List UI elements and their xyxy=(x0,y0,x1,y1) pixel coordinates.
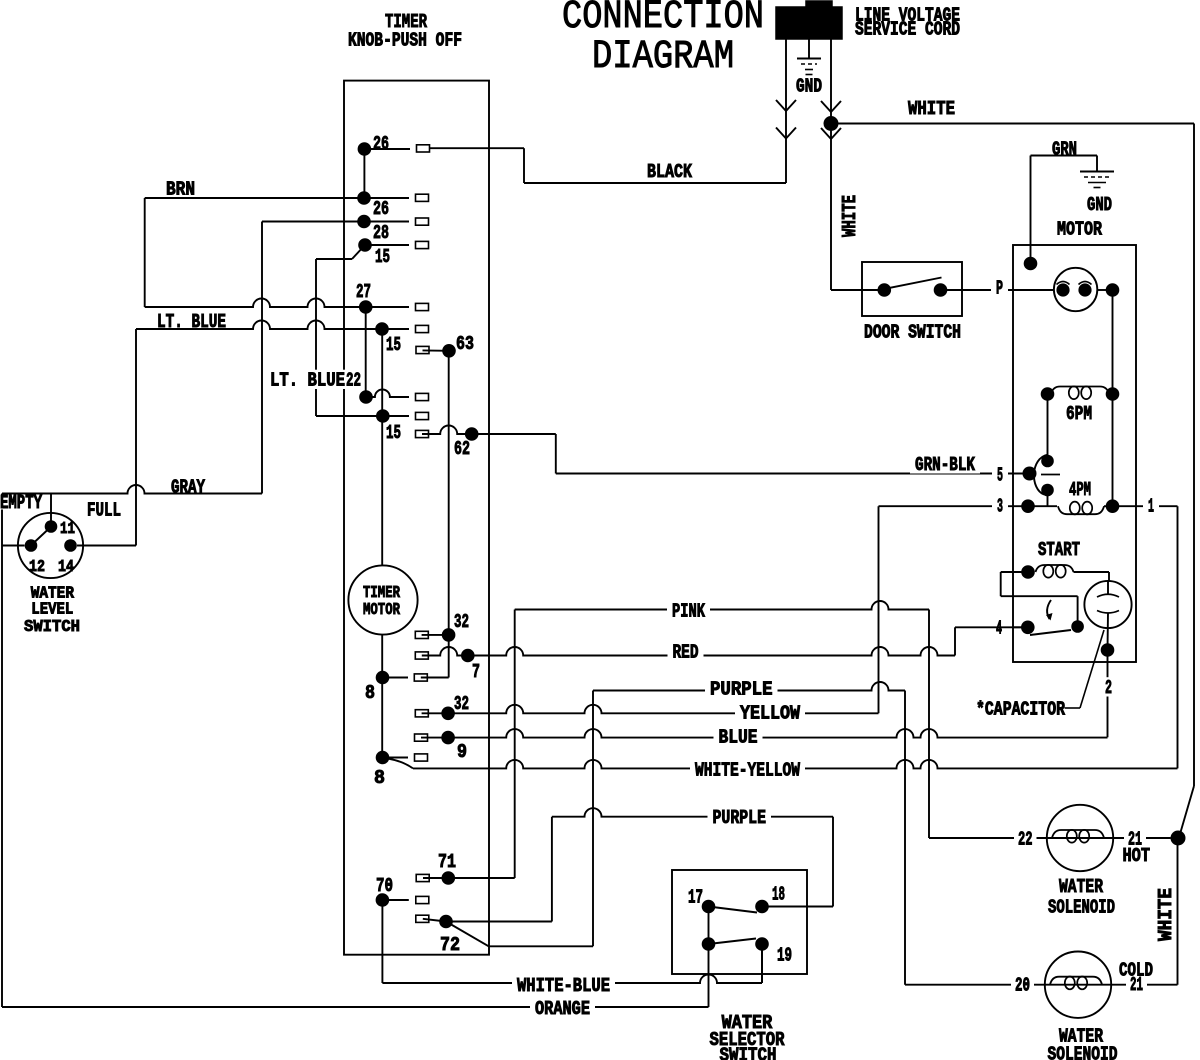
svg-text:LT. BLUE: LT. BLUE xyxy=(157,311,226,333)
svg-text:14: 14 xyxy=(58,558,74,577)
svg-text:WHITE-YELLOW: WHITE-YELLOW xyxy=(695,760,800,782)
svg-text:SOLENOID: SOLENOID xyxy=(1048,1044,1118,1060)
svg-text:BRN: BRN xyxy=(166,179,195,201)
svg-text:15: 15 xyxy=(386,422,401,444)
svg-text:9: 9 xyxy=(457,741,467,763)
svg-text:BLUE: BLUE xyxy=(719,727,758,749)
svg-text:2: 2 xyxy=(1105,677,1112,699)
svg-text:GND: GND xyxy=(1087,194,1112,216)
svg-text:18: 18 xyxy=(772,884,785,906)
svg-text:71: 71 xyxy=(438,851,456,873)
svg-text:LEVEL: LEVEL xyxy=(31,600,73,619)
svg-text:GRAY: GRAY xyxy=(171,477,205,499)
svg-text:PURPLE: PURPLE xyxy=(710,679,773,701)
svg-text:GND: GND xyxy=(796,76,822,98)
svg-text:72: 72 xyxy=(440,934,460,956)
svg-text:START: START xyxy=(1038,539,1080,561)
svg-text:PURPLE: PURPLE xyxy=(713,807,767,829)
svg-text:19: 19 xyxy=(777,945,792,967)
svg-text:DOOR SWITCH: DOOR SWITCH xyxy=(864,322,961,344)
svg-text:GRN-BLK: GRN-BLK xyxy=(915,454,975,476)
svg-text:4: 4 xyxy=(996,618,1002,640)
svg-text:WHITE-BLUE: WHITE-BLUE xyxy=(517,975,610,997)
svg-text:12: 12 xyxy=(29,558,45,577)
svg-text:YELLOW: YELLOW xyxy=(740,703,801,725)
svg-text:22: 22 xyxy=(346,370,361,392)
svg-text:63: 63 xyxy=(456,333,474,355)
svg-text:SWITCH: SWITCH xyxy=(720,1045,777,1060)
svg-text:7: 7 xyxy=(472,661,480,683)
svg-text:GRN: GRN xyxy=(1052,139,1077,161)
svg-text:28: 28 xyxy=(373,222,389,244)
svg-text:BLACK: BLACK xyxy=(647,161,692,183)
svg-text:20: 20 xyxy=(1015,975,1030,997)
svg-text:RED: RED xyxy=(673,642,699,664)
svg-text:DIAGRAM: DIAGRAM xyxy=(592,35,734,80)
svg-text:LT. BLUE: LT. BLUE xyxy=(270,370,345,392)
svg-text:SERVICE CORD: SERVICE CORD xyxy=(855,19,960,41)
svg-text:26: 26 xyxy=(373,133,389,155)
svg-text:MOTOR: MOTOR xyxy=(1057,219,1102,241)
svg-text:22: 22 xyxy=(1018,829,1033,851)
svg-text:15: 15 xyxy=(386,334,401,356)
svg-text:WHITE: WHITE xyxy=(1155,888,1177,941)
svg-text:5: 5 xyxy=(997,465,1003,487)
svg-text:62: 62 xyxy=(454,438,470,460)
svg-text:COLD: COLD xyxy=(1119,960,1153,982)
svg-text:P: P xyxy=(996,278,1003,300)
svg-text:8: 8 xyxy=(365,682,375,704)
svg-text:ORANGE: ORANGE xyxy=(535,998,590,1020)
svg-text:HOT: HOT xyxy=(1123,845,1151,867)
svg-text:11: 11 xyxy=(60,520,75,539)
svg-text:PINK: PINK xyxy=(672,601,705,623)
svg-text:WATER: WATER xyxy=(1059,876,1103,898)
svg-text:MOTOR: MOTOR xyxy=(363,601,401,620)
svg-text:4PM: 4PM xyxy=(1069,479,1091,501)
svg-text:WHITE: WHITE xyxy=(908,98,955,120)
svg-text:SOLENOID: SOLENOID xyxy=(1048,897,1115,919)
svg-text:8: 8 xyxy=(374,767,385,789)
svg-text:32: 32 xyxy=(454,611,469,633)
svg-text:KNOB-PUSH OFF: KNOB-PUSH OFF xyxy=(348,30,462,52)
svg-text:FULL: FULL xyxy=(87,500,121,522)
svg-text:17: 17 xyxy=(688,887,703,909)
svg-text:EMPTY: EMPTY xyxy=(0,492,42,514)
svg-text:WHITE: WHITE xyxy=(839,195,861,237)
svg-text:27: 27 xyxy=(356,281,371,303)
svg-text:32: 32 xyxy=(454,693,469,715)
svg-text:6PM: 6PM xyxy=(1066,403,1092,425)
svg-text:*CAPACITOR: *CAPACITOR xyxy=(976,699,1065,721)
svg-text:15: 15 xyxy=(375,246,390,268)
svg-text:CONNECTION: CONNECTION xyxy=(562,0,764,40)
svg-text:SWITCH: SWITCH xyxy=(24,618,80,637)
svg-text:1: 1 xyxy=(1148,496,1154,518)
svg-text:26: 26 xyxy=(373,198,389,220)
svg-text:3: 3 xyxy=(997,496,1003,518)
